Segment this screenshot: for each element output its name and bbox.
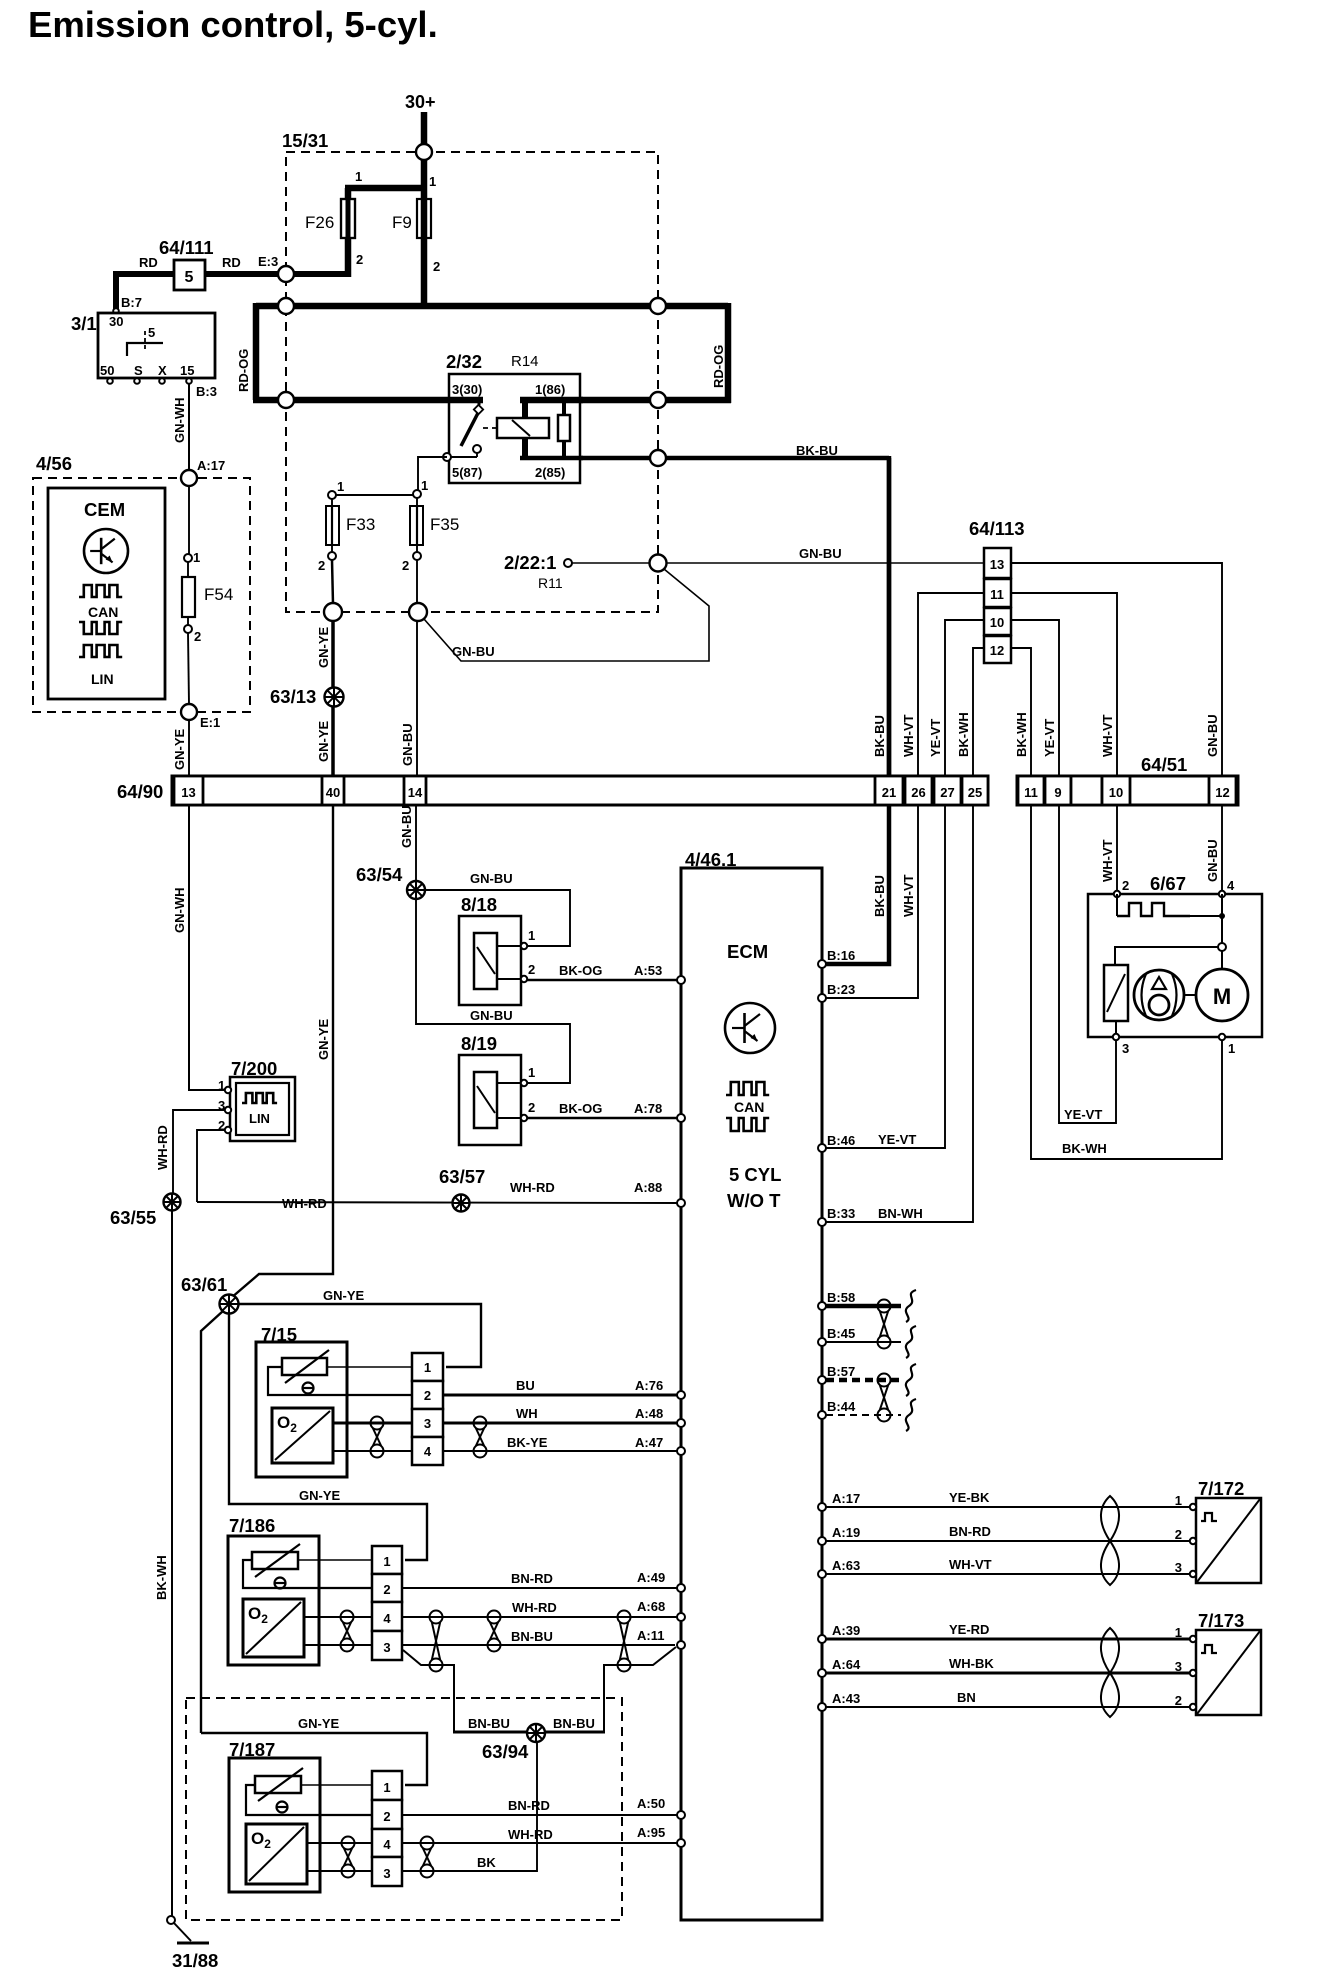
svg-text:30+: 30+ (405, 92, 436, 112)
svg-text:1: 1 (1175, 1493, 1182, 1508)
svg-text:WH-VT: WH-VT (949, 1557, 992, 1572)
7/15 heater (282, 1358, 327, 1375)
junction RD-OG right top (650, 298, 666, 314)
relay coil (497, 418, 549, 438)
wire BK-WH to ground (171, 1211, 173, 1916)
svg-text:A:68: A:68 (637, 1599, 665, 1614)
wire F35 to junction (416, 560, 418, 604)
twisted pair 7/186 mid1 (430, 1611, 443, 1624)
wire F33 to junction (332, 560, 333, 604)
svg-text:A:43: A:43 (832, 1691, 860, 1706)
wire YE-RD (826, 1638, 1190, 1641)
svg-text:A:11: A:11 (637, 1628, 664, 1643)
svg-text:10: 10 (990, 615, 1004, 630)
junction GN-BU at 15/31 edge (409, 603, 427, 621)
wire 30+ inside (421, 160, 428, 192)
7/15 connector (412, 1353, 443, 1381)
break B:58 (906, 1290, 916, 1322)
7/186 heater to pin1 (298, 1559, 372, 1561)
ignition switch symbol (127, 343, 163, 356)
64/90 cell 13 (174, 776, 203, 805)
svg-text:1: 1 (193, 550, 200, 565)
wire GN-BU 64/113:13 right (1011, 563, 1222, 776)
twisted pair 7/173 (1101, 1628, 1119, 1673)
svg-text:63/54: 63/54 (356, 864, 403, 885)
svg-text:2: 2 (424, 1388, 431, 1403)
svg-text:YE-RD: YE-RD (949, 1622, 989, 1637)
pin B:23 (818, 994, 826, 1002)
svg-text:2: 2 (433, 259, 440, 274)
svg-text:4: 4 (383, 1837, 391, 1852)
bus RD-OG top (256, 303, 728, 310)
wire GN-YE to 7/187 connector (201, 1733, 427, 1785)
wire WH-VT 64/113:11 right (1011, 593, 1117, 776)
twisted pair 7/186 mid2 (488, 1611, 501, 1624)
junction RD-OG right bottom (650, 392, 666, 408)
wire BK-WH to 64/113:12 (973, 648, 984, 776)
wire BK-WH 6/67:1 (1031, 805, 1222, 1159)
svg-text:3: 3 (1122, 1041, 1129, 1056)
junction GN-YE at 15/31 edge (324, 603, 342, 621)
svg-text:BU: BU (516, 1378, 535, 1393)
svg-text:7/173: 7/173 (1198, 1610, 1244, 1631)
pin B:57 (818, 1376, 826, 1384)
svg-text:1: 1 (424, 1360, 431, 1375)
wire fuse link (332, 494, 417, 496)
wire 7/200:2 WH-RD (197, 1130, 225, 1202)
6/67 internal junction (1218, 943, 1226, 951)
junction 30+ at 15/31 edge (416, 144, 432, 160)
break B:44 (906, 1399, 916, 1431)
7/15 theta (303, 1383, 314, 1394)
wire B:58 stub (826, 1304, 901, 1309)
svg-text:4: 4 (424, 1444, 432, 1459)
wire GN-BU 64/90:14 to 63/54 (415, 805, 417, 881)
wire WH-VT to 6/67:2 (1116, 805, 1118, 894)
wire BN-WH B:33 (826, 805, 973, 1222)
ground contact 31/88 (167, 1916, 175, 1924)
svg-text:B:3: B:3 (196, 384, 217, 399)
wire WH-VT 7/172 (826, 1573, 1190, 1575)
svg-text:A:47: A:47 (635, 1435, 663, 1450)
CEM inner box (48, 488, 165, 699)
svg-text:5(87): 5(87) (452, 465, 482, 480)
svg-text:WH-RD: WH-RD (510, 1180, 555, 1195)
svg-text:GN-YE: GN-YE (316, 627, 331, 669)
svg-text:B:16: B:16 (827, 948, 855, 963)
svg-text:4/46.1: 4/46.1 (685, 849, 736, 870)
wire WH-BK (826, 1672, 1190, 1675)
svg-text:12: 12 (990, 643, 1004, 658)
svg-text:21: 21 (882, 785, 896, 800)
svg-text:40: 40 (326, 785, 340, 800)
svg-text:26: 26 (911, 785, 925, 800)
7/187 connector (372, 1771, 402, 1800)
wire BK to splice 63/94 (402, 1742, 537, 1871)
svg-text:11: 11 (990, 587, 1004, 602)
svg-text:1: 1 (355, 169, 362, 184)
svg-text:2: 2 (402, 558, 409, 573)
wire F26 top (345, 188, 352, 200)
wire WH-VT B:23 (826, 805, 918, 998)
CEM K symbol (84, 529, 128, 573)
svg-text:2: 2 (194, 629, 201, 644)
twisted pair 7/15 inner (371, 1417, 384, 1430)
relay 5(87) pin (476, 453, 478, 457)
wire F54 to E:1 (188, 633, 189, 704)
fuse F54 (184, 554, 192, 562)
pin A:63 (818, 1570, 826, 1578)
6/67 pin 1 (1219, 1034, 1225, 1040)
svg-text:30: 30 (109, 314, 123, 329)
svg-text:RD-OG: RD-OG (236, 349, 251, 392)
pin A:95 (677, 1839, 685, 1847)
svg-text:GN-BU: GN-BU (1205, 839, 1220, 882)
svg-text:F26: F26 (305, 213, 334, 232)
svg-text:3(30): 3(30) (452, 382, 482, 397)
wire GN-YE to 7/187 (201, 1311, 223, 1733)
svg-text:8/19: 8/19 (461, 1033, 497, 1054)
relay switch (474, 405, 483, 414)
64/90 cell 25 (962, 776, 988, 805)
svg-text:10: 10 (1109, 785, 1123, 800)
svg-text:WH-RD: WH-RD (508, 1827, 553, 1842)
svg-text:1: 1 (528, 928, 535, 943)
svg-text:A:39: A:39 (832, 1623, 860, 1638)
svg-text:2: 2 (383, 1809, 390, 1824)
twisted pair B:58 B:45 (878, 1300, 891, 1313)
junction RD-OG left bottom (278, 392, 294, 408)
relay coil ground (522, 438, 528, 460)
pin A:53 (677, 976, 685, 984)
svg-text:YE-VT: YE-VT (1042, 719, 1057, 757)
64/51 cell 12 (1209, 776, 1236, 805)
pin A:78 (677, 1114, 685, 1122)
svg-text:GN-YE: GN-YE (299, 1488, 341, 1503)
svg-text:63/61: 63/61 (181, 1274, 227, 1295)
svg-text:3/1: 3/1 (71, 313, 97, 334)
svg-text:WH-VT: WH-VT (1100, 839, 1115, 882)
svg-text:BN-BU: BN-BU (553, 1716, 595, 1731)
pin A:88 (677, 1199, 685, 1207)
svg-text:11: 11 (1024, 785, 1038, 800)
pin A:50 (677, 1811, 685, 1819)
relay 2/32 R14 box (449, 374, 580, 483)
svg-text:8/18: 8/18 (461, 894, 497, 915)
svg-text:YE-VT: YE-VT (928, 719, 943, 757)
fuse F26 (346, 199, 351, 238)
wire YE-VT to 64/113:10 (945, 620, 984, 776)
svg-text:12: 12 (1215, 785, 1229, 800)
6/67 pump symbol (1134, 970, 1184, 1020)
junction A:17 (181, 470, 197, 486)
svg-text:B:58: B:58 (827, 1290, 855, 1305)
relay bus 3(30) interior (449, 397, 483, 404)
svg-text:B:44: B:44 (827, 1399, 856, 1414)
break B:45 (906, 1326, 916, 1358)
svg-text:5 CYL: 5 CYL (729, 1164, 781, 1185)
pin A:68 (677, 1613, 685, 1621)
svg-text:A:17: A:17 (832, 1491, 860, 1506)
CEM LIN wave (79, 645, 122, 657)
svg-text:A:78: A:78 (634, 1101, 662, 1116)
svg-text:R11: R11 (538, 575, 563, 591)
harness box (dashed) (186, 1698, 622, 1920)
svg-text:2/32: 2/32 (446, 351, 482, 372)
twisted pair 7/172 (1101, 1496, 1119, 1541)
svg-text:3: 3 (383, 1866, 390, 1881)
bus RD-OG right U (725, 303, 732, 403)
wire WH-RD to A:95 (402, 1842, 678, 1844)
6/67 pump link (1184, 994, 1196, 996)
svg-text:GN-WH: GN-WH (172, 398, 187, 444)
svg-text:64/111: 64/111 (159, 237, 214, 258)
svg-text:YE-VT: YE-VT (878, 1132, 916, 1147)
wire GN-BU to 64/113:13 (666, 562, 984, 564)
svg-text:F35: F35 (430, 515, 459, 534)
6/67 solenoid to pin3 (1115, 1021, 1117, 1037)
7/186 connector (372, 1546, 402, 1574)
svg-text:B:45: B:45 (827, 1326, 855, 1341)
svg-text:4: 4 (383, 1611, 391, 1626)
wire RD to 64/111 (205, 271, 262, 277)
twisted pair 7/186 mid3 (618, 1611, 631, 1624)
svg-text:F33: F33 (346, 515, 375, 534)
6/67 pin 4 (1219, 891, 1225, 897)
pin A:11 (677, 1641, 685, 1649)
junction E:3 (278, 266, 294, 282)
pin A:64 (818, 1669, 826, 1677)
wire GN-BU to 6/67:4 (1221, 805, 1223, 894)
svg-text:E:1: E:1 (200, 715, 220, 730)
svg-text:2(85): 2(85) (535, 465, 565, 480)
bus RD-OG bottom right (580, 397, 731, 404)
wire GN-YE to 7/186 (229, 1313, 427, 1560)
svg-text:BN-RD: BN-RD (949, 1524, 991, 1539)
svg-text:BN-RD: BN-RD (511, 1571, 553, 1586)
twisted pair 7/186 inner (341, 1611, 354, 1624)
7/187 O2 cell (246, 1824, 307, 1884)
wire BN-RD to A:50 (402, 1814, 678, 1816)
pin A:17 (818, 1503, 826, 1511)
wire BU to A:76 (443, 1394, 678, 1397)
svg-text:13: 13 (990, 557, 1004, 572)
svg-text:GN-BU: GN-BU (470, 1008, 513, 1023)
wire 30+ down (421, 112, 428, 150)
wire YE-VT B:46 (826, 805, 945, 1148)
svg-text:Emission control, 5-cyl.: Emission control, 5-cyl. (28, 4, 438, 45)
pin B:16 (818, 960, 826, 968)
svg-text:CAN: CAN (734, 1099, 764, 1115)
svg-text:2: 2 (1175, 1693, 1182, 1708)
wire BN (826, 1706, 1190, 1708)
svg-text:BK-BU: BK-BU (872, 875, 887, 917)
svg-text:GN-YE: GN-YE (316, 1019, 331, 1061)
svg-text:A:63: A:63 (832, 1558, 860, 1573)
svg-text:BK-WH: BK-WH (1014, 712, 1029, 757)
relay resistor (558, 415, 570, 441)
7/15 O2 wires (333, 1422, 412, 1425)
svg-text:63/94: 63/94 (482, 1741, 529, 1762)
twisted pair 7/187 outer (421, 1837, 434, 1850)
64/90 cell 27 (934, 776, 961, 805)
wire GN-WH B:3 to A:17 (188, 384, 190, 470)
wire GN-YE 64/90:40 down (231, 805, 333, 1298)
svg-text:B:57: B:57 (827, 1364, 855, 1379)
svg-text:27: 27 (940, 785, 954, 800)
svg-text:M: M (1213, 984, 1231, 1009)
relay switch link (dashed) (483, 427, 499, 429)
svg-text:WH-RD: WH-RD (282, 1196, 327, 1211)
svg-text:BN-BU: BN-BU (468, 1716, 510, 1731)
svg-text:GN-YE: GN-YE (172, 729, 187, 771)
pin A:48 (677, 1419, 685, 1427)
wire B:57 stub (dashed) (826, 1378, 901, 1383)
svg-text:5: 5 (185, 269, 194, 286)
pin B:44 (818, 1411, 826, 1419)
wire WH-RD to A:88 (197, 1202, 678, 1203)
svg-text:3: 3 (383, 1640, 390, 1655)
splice 63/61 (220, 1295, 239, 1314)
svg-text:F54: F54 (204, 585, 233, 604)
wire B:45 stub (826, 1341, 901, 1343)
fuse F9 (421, 192, 428, 238)
svg-text:1: 1 (528, 1065, 535, 1080)
svg-text:R14: R14 (511, 353, 539, 370)
svg-text:15/31: 15/31 (282, 130, 328, 151)
6/67 solenoid branch (1115, 947, 1218, 965)
ignition switch 3/1 box (98, 313, 215, 378)
terminal 30 of 3/1 (113, 308, 119, 314)
svg-text:GN-YE: GN-YE (298, 1716, 340, 1731)
svg-text:63/57: 63/57 (439, 1166, 485, 1187)
CEM CAN wave upper (79, 585, 122, 597)
svg-text:GN-BU: GN-BU (470, 871, 513, 886)
svg-text:64/90: 64/90 (117, 781, 163, 802)
6/67 solenoid (1104, 965, 1128, 1021)
wire BK-BU down to B:16 (826, 456, 889, 964)
svg-text:F9: F9 (392, 213, 412, 232)
svg-text:X: X (158, 363, 167, 378)
svg-text:2: 2 (1175, 1527, 1182, 1542)
7/15 heater frame (268, 1367, 412, 1395)
svg-text:WH: WH (516, 1406, 538, 1421)
ECM K symbol (725, 1003, 775, 1053)
wire GN-YE to 7/15 (238, 1304, 481, 1367)
6/67 pin 2 (1114, 891, 1120, 897)
svg-text:W/O T: W/O T (727, 1190, 781, 1211)
splice 63/13 (325, 688, 344, 707)
svg-text:BK-WH: BK-WH (154, 1555, 169, 1600)
wire E:3 RD (262, 271, 348, 277)
svg-text:3: 3 (424, 1416, 431, 1431)
connector 64/111 (174, 260, 205, 290)
svg-text:63/55: 63/55 (110, 1207, 156, 1228)
svg-text:6/67: 6/67 (1150, 873, 1186, 894)
svg-text:GN-YE: GN-YE (316, 721, 331, 763)
wire B:44 stub (dashed) (826, 1414, 901, 1416)
splice 63/94 (527, 1724, 545, 1742)
svg-text:S: S (134, 363, 143, 378)
svg-text:RD-OG: RD-OG (711, 345, 726, 388)
ECM CAN wave lower (726, 1118, 769, 1131)
svg-text:B:23: B:23 (827, 982, 855, 997)
svg-text:64/51: 64/51 (1141, 754, 1187, 775)
7/186 O2 wires (304, 1616, 372, 1618)
relay box 15/31 (dashed) (286, 152, 658, 612)
wire R11 to junction (572, 562, 650, 564)
svg-text:ECM: ECM (727, 941, 768, 962)
terminal pins 3/1 (107, 378, 113, 384)
wire BN-BU splice run (403, 1650, 454, 1731)
svg-text:BK-OG: BK-OG (559, 1101, 602, 1116)
64/90 cell 14 (404, 776, 426, 805)
wire GN-YE to 64/90:40 (331, 621, 335, 776)
7/187 heater (255, 1776, 301, 1793)
CEM CAN wave lower (79, 622, 122, 634)
svg-text:LIN: LIN (249, 1111, 270, 1126)
fuse F35 (413, 490, 421, 498)
svg-text:WH-VT: WH-VT (901, 714, 916, 757)
svg-text:GN-BU: GN-BU (452, 644, 495, 659)
junction GN-BU R11 (650, 555, 667, 572)
svg-text:BK-WH: BK-WH (1062, 1141, 1107, 1156)
svg-text:A:76: A:76 (635, 1378, 663, 1393)
svg-text:25: 25 (968, 785, 982, 800)
svg-text:RD: RD (139, 255, 158, 270)
ECM CAN wave upper (726, 1082, 769, 1095)
svg-text:LIN: LIN (91, 671, 114, 687)
svg-text:GN-YE: GN-YE (323, 1288, 365, 1303)
svg-text:A:49: A:49 (637, 1570, 665, 1585)
64/51 cell 11 (1018, 776, 1044, 805)
svg-text:1: 1 (383, 1554, 390, 1569)
svg-text:2: 2 (318, 558, 325, 573)
svg-text:GN-WH: GN-WH (172, 888, 187, 934)
wire YE-VT 6/67:3 (1059, 805, 1116, 1123)
7/187 heater frame (246, 1785, 372, 1815)
wire BK-BU above 64/90:21 (887, 458, 892, 776)
svg-text:7/186: 7/186 (229, 1515, 275, 1536)
twisted pair 7/15 outer (474, 1417, 487, 1430)
wire RD to 3/1 (116, 274, 174, 311)
svg-text:1: 1 (421, 478, 428, 493)
svg-text:64/113: 64/113 (969, 518, 1025, 539)
svg-text:CAN: CAN (88, 604, 118, 620)
junction BK-BU at 15/31 edge (650, 450, 666, 466)
CEM module 4/56 (dashed) (33, 478, 250, 712)
6/67 motor M (1196, 969, 1248, 1021)
svg-text:BK-WH: BK-WH (956, 712, 971, 757)
svg-text:WH-VT: WH-VT (901, 874, 916, 917)
pin A:76 (677, 1391, 685, 1399)
wire YE-BK (826, 1506, 1190, 1508)
svg-text:1: 1 (383, 1780, 390, 1795)
pin A:47 (677, 1447, 685, 1455)
bus RD-OG left U (253, 303, 260, 400)
svg-text:WH-RD: WH-RD (155, 1125, 170, 1170)
svg-text:2/22:1: 2/22:1 (504, 552, 556, 573)
wire GN-WH 64/90:13 to 7/200 (189, 805, 225, 1090)
wire BN-RD to A:49 (402, 1587, 678, 1589)
splice 63/55 (164, 1194, 181, 1211)
svg-text:1(86): 1(86) (535, 382, 565, 397)
svg-text:A:17: A:17 (197, 458, 225, 473)
pin A:39 (818, 1635, 826, 1643)
6/67 pin4 lead (1221, 894, 1223, 969)
wire WH-VT to 64/113:11 (918, 593, 984, 776)
svg-text:50: 50 (100, 363, 114, 378)
